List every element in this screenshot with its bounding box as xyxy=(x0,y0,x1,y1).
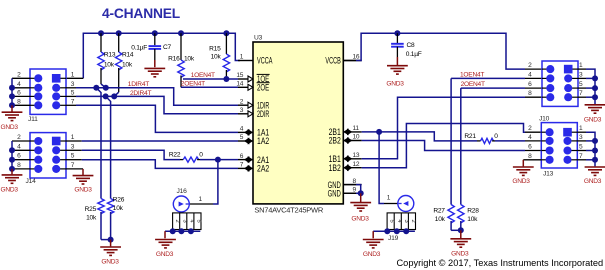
svg-text:5: 5 xyxy=(71,153,75,160)
node C8 junction xyxy=(394,30,400,36)
resistor R28 xyxy=(458,205,464,223)
connector J13 xyxy=(541,123,577,168)
svg-text:R16: R16 xyxy=(168,55,180,62)
svg-text:5: 5 xyxy=(579,81,583,88)
ground R27 R28 GND3 xyxy=(460,230,462,238)
svg-text:2B2: 2B2 xyxy=(329,136,341,146)
svg-text:14: 14 xyxy=(236,81,243,88)
svg-text:6: 6 xyxy=(17,89,21,96)
net 2OEN4T wire right xyxy=(461,87,525,89)
ground J10 GND3 xyxy=(585,104,605,106)
svg-text:GND3: GND3 xyxy=(156,251,174,258)
ground J19 GND3 xyxy=(363,239,384,241)
svg-text:2DIR: 2DIR xyxy=(257,109,269,119)
svg-text:3: 3 xyxy=(240,107,244,114)
pin 9 GND of U3 xyxy=(343,192,361,194)
connector J14 xyxy=(30,133,66,178)
jumper J16 pins 2-5 block xyxy=(173,213,201,230)
pin 10 2B2 of U3 xyxy=(343,140,361,142)
svg-text:J11: J11 xyxy=(28,116,38,123)
wire J14 pin7 to ground xyxy=(66,168,83,170)
svg-text:6: 6 xyxy=(528,81,532,88)
svg-text:3: 3 xyxy=(403,220,409,223)
svg-text:2: 2 xyxy=(528,62,532,69)
wire J13 pin8 to ground xyxy=(523,159,541,161)
svg-text:R14: R14 xyxy=(122,52,134,59)
svg-text:8: 8 xyxy=(17,162,21,169)
capacitor C7 xyxy=(154,33,156,45)
net 2DIR4T wire xyxy=(66,95,76,97)
svg-text:4: 4 xyxy=(17,143,21,150)
svg-text:R27: R27 xyxy=(433,207,445,214)
svg-text:1: 1 xyxy=(387,195,391,202)
node 1DIR dots xyxy=(93,85,99,91)
svg-text:1: 1 xyxy=(199,196,203,203)
wire U3 1B1 to J10 pin8 xyxy=(362,97,525,159)
node J11 ground rail dots xyxy=(9,85,15,91)
node J16 pins 2-5 dots xyxy=(170,228,176,234)
pin 13 1B1 of U3 xyxy=(343,158,361,160)
pin 8 GND of U3 xyxy=(343,184,361,186)
svg-text:2OEN4T: 2OEN4T xyxy=(461,81,485,88)
wire 1OEN4T to R27 xyxy=(450,78,452,204)
wire J19 pins 2-5 tie xyxy=(373,230,415,232)
svg-text:4: 4 xyxy=(528,134,532,141)
jumper J16 pin1 circle xyxy=(173,196,189,212)
svg-text:0.1µF: 0.1µF xyxy=(406,51,422,58)
svg-text:5: 5 xyxy=(196,220,202,223)
node R25 R26 junction xyxy=(108,237,114,243)
svg-text:C7: C7 xyxy=(163,44,172,51)
resistor R22 0 ohm xyxy=(180,159,183,161)
svg-text:2: 2 xyxy=(528,125,532,132)
wire J13 right pins to ground rail xyxy=(577,131,586,133)
node VCCA junction dots xyxy=(98,30,104,36)
svg-text:0.1µF: 0.1µF xyxy=(131,45,147,52)
svg-text:2OEN4T: 2OEN4T xyxy=(181,80,205,87)
svg-text:7: 7 xyxy=(579,153,583,160)
node R15 junction xyxy=(223,76,229,82)
svg-text:16: 16 xyxy=(353,54,360,61)
ground U3 GND3 xyxy=(360,193,362,202)
resistor R26 xyxy=(107,199,113,214)
wire J10 right pins to ground rail xyxy=(578,68,586,70)
svg-text:3: 3 xyxy=(71,143,75,150)
svg-text:GND3: GND3 xyxy=(386,80,404,87)
net 1OEN4T wire left xyxy=(183,78,238,80)
wire U3 2B2 to J13 pin6 xyxy=(362,141,525,151)
svg-text:5: 5 xyxy=(240,134,244,141)
wire J16 pins 2-5 tie xyxy=(165,230,200,232)
ground J16 GND3 xyxy=(155,239,176,241)
svg-text:7: 7 xyxy=(579,90,583,97)
svg-text:C8: C8 xyxy=(407,42,416,49)
resistor R15 xyxy=(225,33,227,54)
svg-text:1DIR4T: 1DIR4T xyxy=(128,81,149,88)
wire U3 1B2 to J13 pin2 xyxy=(362,124,525,168)
svg-text:2A2: 2A2 xyxy=(257,164,269,174)
svg-text:R15: R15 xyxy=(209,45,221,52)
resistor R13 xyxy=(100,33,102,52)
svg-text:GND3: GND3 xyxy=(351,216,369,223)
resistor R16 xyxy=(180,33,182,60)
net 1OEN4T wire right xyxy=(451,77,525,79)
resistor R21 0 ohm xyxy=(477,140,481,142)
wire R25 R26 join xyxy=(101,239,111,241)
svg-text:GND: GND xyxy=(328,189,342,199)
wire J14 pin3 to R22 xyxy=(66,149,82,151)
svg-text:J19: J19 xyxy=(388,235,399,242)
svg-text:1B2: 1B2 xyxy=(329,163,341,173)
node J14 ground rail dots xyxy=(9,147,15,153)
svg-text:R26: R26 xyxy=(113,197,125,204)
svg-text:10k: 10k xyxy=(104,62,115,69)
node U3 GND junction xyxy=(358,190,364,196)
svg-text:4: 4 xyxy=(240,126,244,133)
svg-text:2OE: 2OE xyxy=(257,83,269,93)
wire J14 pin1 to U3 1A2 xyxy=(66,140,82,142)
node J10 ground dots xyxy=(592,75,598,81)
svg-text:GND3: GND3 xyxy=(101,259,119,266)
op-amp U3 SN74AVC4T245PWR body xyxy=(253,42,343,204)
wire J11 pin1 stub xyxy=(66,77,83,79)
pin 2 1DIR of U3 xyxy=(238,104,253,106)
svg-text:GND3: GND3 xyxy=(584,178,602,185)
svg-text:GND3: GND3 xyxy=(1,187,19,194)
svg-text:3: 3 xyxy=(579,71,583,78)
svg-text:3: 3 xyxy=(71,81,75,88)
wire 2OEN4T to R28 xyxy=(460,88,462,204)
svg-text:0: 0 xyxy=(199,151,203,158)
svg-text:4: 4 xyxy=(17,81,21,88)
svg-text:VCCB: VCCB xyxy=(325,56,340,66)
wire 1DIR to R25 xyxy=(96,88,101,199)
svg-text:4-CHANNEL: 4-CHANNEL xyxy=(102,6,180,21)
wire U3 2B1 to R21 and J13 pin4 xyxy=(362,132,477,141)
ground J13 pin8 GND3 xyxy=(513,166,534,168)
svg-text:2: 2 xyxy=(174,220,180,223)
ground R25 R26 GND3 xyxy=(110,240,112,247)
wire U3 GND pins xyxy=(343,184,356,186)
svg-text:R21: R21 xyxy=(464,133,476,140)
ground J14 pin7 GND3 xyxy=(73,175,94,177)
svg-text:8: 8 xyxy=(528,153,532,160)
wire R22 to U3 2A1 xyxy=(200,159,238,161)
jumper J19 pin1 circle xyxy=(398,196,414,212)
node J19 pins 2-5 dots xyxy=(384,228,390,234)
svg-text:R28: R28 xyxy=(467,207,479,214)
wire 2A1 to J16 pin1 xyxy=(213,160,218,204)
ground J11 GND3 xyxy=(11,105,13,111)
wire J19 pins to ground xyxy=(372,231,374,238)
svg-text:8: 8 xyxy=(528,90,532,97)
svg-text:1OEN4T: 1OEN4T xyxy=(191,72,215,79)
svg-text:8: 8 xyxy=(353,178,357,185)
svg-text:GND3: GND3 xyxy=(584,117,602,124)
wire J14 pin5 to U3 2A2 xyxy=(66,159,82,161)
ground C8 GND3 xyxy=(387,65,408,67)
svg-text:GND3: GND3 xyxy=(74,187,92,194)
svg-text:7: 7 xyxy=(71,162,75,169)
pin 14 2OE of U3 xyxy=(238,86,253,88)
svg-text:13: 13 xyxy=(353,152,360,159)
svg-text:3: 3 xyxy=(181,220,187,223)
svg-text:7: 7 xyxy=(240,162,244,169)
resistor R27 xyxy=(448,205,454,223)
svg-text:10k: 10k xyxy=(113,205,124,212)
pin 12 1B2 of U3 xyxy=(343,167,361,169)
svg-text:6: 6 xyxy=(240,153,244,160)
pin 5 1A2 of U3 xyxy=(238,140,253,142)
node 2B1 junction xyxy=(376,129,382,135)
wire R27 R28 join xyxy=(451,229,461,231)
svg-text:VCCA: VCCA xyxy=(257,56,272,66)
wire J11 pin7 to U3 1A1 xyxy=(66,104,76,106)
svg-text:1A2: 1A2 xyxy=(257,136,269,146)
svg-text:5: 5 xyxy=(579,144,583,151)
svg-text:SN74AVC4T245PWR: SN74AVC4T245PWR xyxy=(254,206,323,215)
jumper J19 pins 2-5 block xyxy=(387,213,415,230)
connector J11 xyxy=(30,69,66,114)
svg-text:Copyright © 2017, Texas Instru: Copyright © 2017, Texas Instruments Inco… xyxy=(397,258,604,268)
pin 4 1A1 of U3 xyxy=(238,131,253,133)
net VCCA bus xyxy=(83,33,240,78)
svg-text:GND3: GND3 xyxy=(512,178,530,185)
svg-text:2: 2 xyxy=(410,220,416,223)
svg-text:2DIR4T: 2DIR4T xyxy=(130,90,151,97)
svg-text:0: 0 xyxy=(494,133,498,140)
pin 3 2DIR of U3 xyxy=(238,113,253,115)
svg-text:12: 12 xyxy=(353,161,360,168)
svg-text:5: 5 xyxy=(389,220,395,223)
svg-text:R13: R13 xyxy=(104,52,116,59)
svg-text:J16: J16 xyxy=(177,188,188,195)
pin 6 2A1 of U3 xyxy=(238,159,253,161)
svg-text:GND3: GND3 xyxy=(451,250,469,257)
svg-text:1OEN4T: 1OEN4T xyxy=(460,71,484,78)
svg-text:10k: 10k xyxy=(122,62,133,69)
svg-text:4: 4 xyxy=(528,71,532,78)
wire J16 pins to ground xyxy=(164,231,166,238)
svg-text:10k: 10k xyxy=(86,215,97,222)
svg-text:6: 6 xyxy=(17,153,21,160)
capacitor C8 xyxy=(396,33,398,43)
pin 15 1OE of U3 xyxy=(238,78,253,80)
svg-text:1: 1 xyxy=(579,62,583,69)
pin 16 VCCB of U3 xyxy=(343,60,361,62)
svg-text:8: 8 xyxy=(17,98,21,105)
svg-text:11: 11 xyxy=(353,125,360,132)
svg-text:5: 5 xyxy=(71,89,75,96)
net 2OEN4T wire left xyxy=(181,86,238,88)
wire J14 left pins to ground rail xyxy=(12,140,30,142)
pin 7 2A2 of U3 xyxy=(238,167,253,169)
svg-text:10k: 10k xyxy=(467,216,478,223)
net 1DIR4T wire xyxy=(66,87,76,89)
ground J14 left GND3 xyxy=(11,169,13,174)
svg-text:15: 15 xyxy=(236,72,243,79)
net VCCB wire xyxy=(343,60,356,62)
svg-text:10k: 10k xyxy=(211,53,222,60)
node R22 2A1 junction xyxy=(215,157,221,163)
svg-text:1: 1 xyxy=(579,125,583,132)
svg-text:U3: U3 xyxy=(254,34,263,41)
svg-text:6: 6 xyxy=(528,144,532,151)
ground C7 xyxy=(144,67,165,69)
svg-text:2: 2 xyxy=(240,98,244,105)
svg-text:J10: J10 xyxy=(539,115,550,122)
svg-text:R25: R25 xyxy=(85,206,97,213)
node 2DIR dots xyxy=(103,93,109,99)
svg-text:2: 2 xyxy=(17,134,21,141)
pin 11 2B1 of U3 xyxy=(343,131,361,133)
svg-text:10k: 10k xyxy=(184,55,195,62)
svg-text:1: 1 xyxy=(71,134,75,141)
svg-text:GND3: GND3 xyxy=(1,124,19,131)
node J13 ground dots xyxy=(592,138,598,144)
ground J13 right GND3 xyxy=(585,166,605,168)
svg-text:10: 10 xyxy=(353,134,360,141)
resistor R14 xyxy=(118,33,120,52)
svg-text:R22: R22 xyxy=(169,151,181,158)
svg-text:J14: J14 xyxy=(26,178,37,185)
connector J10 xyxy=(542,61,578,106)
pin 1 VCCA of U3 xyxy=(238,60,253,62)
wire J11 left pins to ground rail xyxy=(12,77,30,79)
resistor R25 xyxy=(98,199,104,214)
svg-text:3: 3 xyxy=(579,134,583,141)
svg-text:GND3: GND3 xyxy=(363,251,381,258)
node R27 R28 junction xyxy=(458,227,464,233)
svg-text:2: 2 xyxy=(17,71,21,78)
svg-text:J13: J13 xyxy=(543,171,554,178)
svg-text:7: 7 xyxy=(71,98,75,105)
wire 2B1 to J19 pin1 xyxy=(379,132,384,204)
svg-text:1: 1 xyxy=(71,71,75,78)
svg-text:10k: 10k xyxy=(435,216,446,223)
wire 2DIR to R26 xyxy=(106,96,111,198)
svg-text:9: 9 xyxy=(353,187,357,194)
svg-text:1: 1 xyxy=(240,54,244,61)
